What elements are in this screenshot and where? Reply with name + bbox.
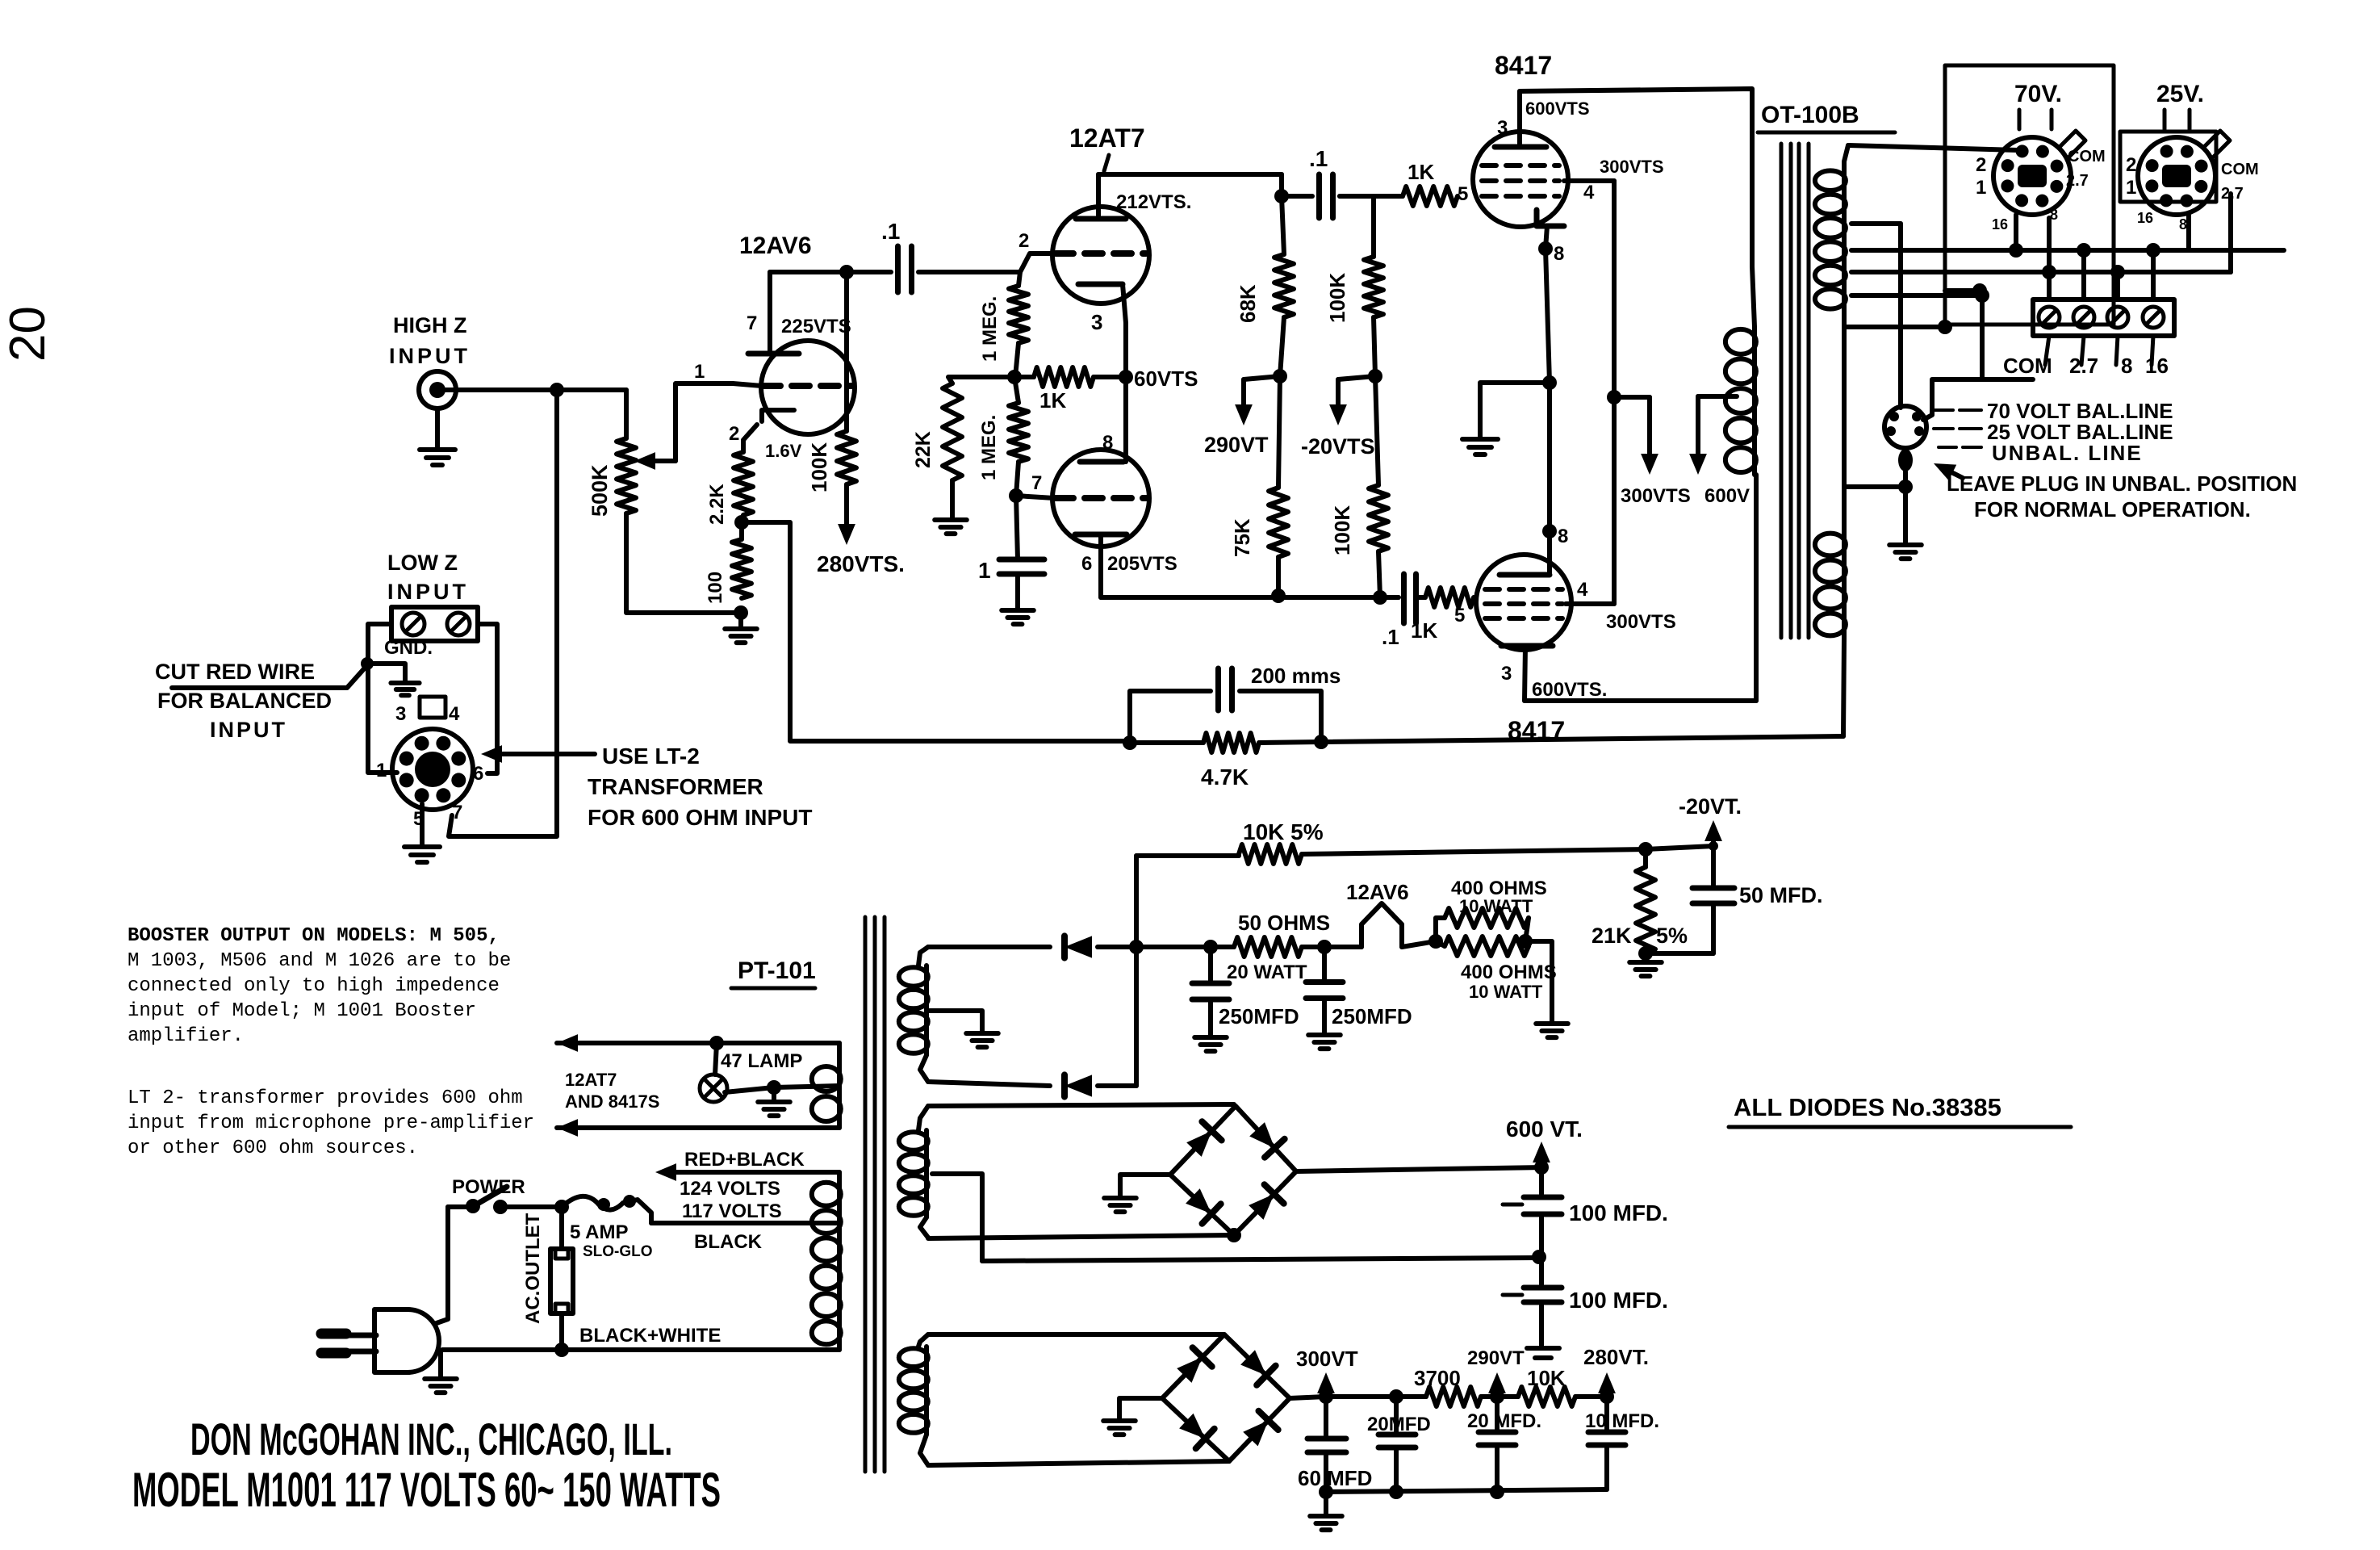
node cathode bus junction xyxy=(1542,375,1557,390)
svg-text:8: 8 xyxy=(2121,354,2132,378)
wire bridge1 output xyxy=(1296,1167,1541,1171)
wire 12AT7B plate lead xyxy=(1098,534,1103,597)
svg-text:2: 2 xyxy=(1976,154,1986,176)
node 400 ohm right xyxy=(1518,934,1533,949)
svg-text:8: 8 xyxy=(1554,243,1564,265)
svg-text:10 MFD.: 10 MFD. xyxy=(1585,1410,1659,1432)
wire filter bottom bus xyxy=(1326,1489,1607,1492)
leader unbal xyxy=(1939,446,1956,449)
svg-text:USE LT-2: USE LT-2 xyxy=(602,744,700,769)
svg-text:COM: COM xyxy=(2003,354,2052,378)
12AT7A grid dashes pin 2 xyxy=(1056,250,1146,257)
terminal strip leads xyxy=(2045,336,2049,365)
8417A screen pin 4 xyxy=(1564,178,1614,183)
capacitor .1 coupling (12AV6 to 12AT7) xyxy=(895,246,901,292)
PT HV winding 600V xyxy=(918,1106,928,1130)
svg-text:3: 3 xyxy=(1091,310,1102,334)
svg-text:1: 1 xyxy=(2126,177,2136,199)
svg-text:BLACK+WHITE: BLACK+WHITE xyxy=(579,1325,721,1347)
wire cathode bus lower xyxy=(1547,383,1552,531)
arrow 300VTS supply xyxy=(1614,395,1650,400)
ground lamp tap xyxy=(772,1087,776,1102)
wire plate line to cap xyxy=(1278,595,1380,600)
svg-text:117 VOLTS: 117 VOLTS xyxy=(682,1200,782,1222)
svg-text:4: 4 xyxy=(1583,182,1595,203)
svg-text:1: 1 xyxy=(694,361,705,383)
svg-text:input from microphone pre-ampl: input from microphone pre-amplifier xyxy=(128,1112,534,1134)
12AT7A cathode pin 3 xyxy=(1078,282,1123,287)
8417B cathode pin 8 xyxy=(1500,572,1550,578)
svg-text:1 MEG.: 1 MEG. xyxy=(978,415,1000,480)
wire bias top xyxy=(928,945,1050,949)
svg-text:600 VT.: 600 VT. xyxy=(1506,1116,1583,1142)
svg-text:290VT: 290VT xyxy=(1204,433,1269,457)
svg-text:2: 2 xyxy=(1019,230,1029,252)
node lamp tap xyxy=(767,1080,781,1095)
arrow to plug pin xyxy=(1940,467,1963,478)
svg-text:.1: .1 xyxy=(1382,625,1399,649)
node fuse left xyxy=(554,1200,569,1214)
arrow 290VT xyxy=(1244,376,1280,379)
HV winding tap xyxy=(932,1174,982,1261)
wire box 25V socket xyxy=(2120,132,2216,202)
svg-text:1: 1 xyxy=(376,760,387,781)
resistor 1K lower 8417 grid xyxy=(1417,595,1425,600)
socket LT-2 transformer (8-pin) xyxy=(392,729,473,810)
resistor 100K grid upper 8417 xyxy=(1371,196,1376,257)
rectifier bridge 2 xyxy=(1162,1334,1290,1461)
resistor 1K cathode coupling xyxy=(1034,367,1094,387)
terminal strip TS1 xyxy=(2033,300,2174,336)
wire junction after coupling cap xyxy=(1279,174,1284,196)
wire to coupling cap xyxy=(847,270,891,274)
node bridge1 bottom xyxy=(1227,1228,1241,1242)
svg-text:8: 8 xyxy=(2179,216,2187,232)
OT secondary lower coil xyxy=(1842,531,1847,638)
arrow 600 VT. xyxy=(1539,1158,1544,1167)
svg-text:16: 16 xyxy=(1992,216,2008,232)
svg-text:22K: 22K xyxy=(912,431,935,468)
svg-text:UNBAL. LINE: UNBAL. LINE xyxy=(1992,441,2143,465)
wire OT secondary top xyxy=(1848,145,2018,150)
wire pot bottom xyxy=(626,513,739,613)
svg-text:100: 100 xyxy=(705,572,726,604)
node A junction high-Z xyxy=(550,383,564,397)
capacitor 50 MFD xyxy=(1711,846,1716,888)
OT primary coil xyxy=(1752,266,1755,327)
svg-text:75K: 75K xyxy=(1230,518,1254,557)
svg-text:1 MEG.: 1 MEG. xyxy=(979,296,1001,362)
socket 25V key tag xyxy=(2204,131,2230,157)
svg-text:60 MFD: 60 MFD xyxy=(1298,1466,1372,1490)
svg-text:300VT: 300VT xyxy=(1296,1347,1358,1371)
svg-text:AC.OUTLET: AC.OUTLET xyxy=(522,1213,544,1324)
wire 12AV6 plate bus xyxy=(770,270,847,274)
wire to ground xyxy=(1480,383,1550,439)
svg-text:300VTS: 300VTS xyxy=(1621,485,1691,507)
capacitor 200 mms xyxy=(1130,691,1211,743)
svg-text:20MFD: 20MFD xyxy=(1367,1414,1431,1435)
svg-text:290VT: 290VT xyxy=(1467,1347,1525,1369)
svg-text:5 AMP: 5 AMP xyxy=(570,1221,628,1243)
wire OT secondary bottom xyxy=(1844,325,1945,329)
12AT7B cathode pin 8 xyxy=(1080,459,1123,465)
ground bridge1 xyxy=(1104,1196,1136,1200)
PT LV winding 300V xyxy=(918,1334,928,1347)
svg-text:100K: 100K xyxy=(807,442,831,492)
OT secondary upper coil xyxy=(1844,145,1848,169)
arrow 280VTS supply xyxy=(844,484,849,529)
svg-text:-20VTS: -20VTS xyxy=(1301,434,1375,459)
heater 12AV6 symbol xyxy=(1324,945,1361,949)
node lamp top xyxy=(709,1036,724,1050)
svg-text:600VTS: 600VTS xyxy=(1525,98,1590,119)
node 1MEG junction xyxy=(1007,370,1022,384)
svg-text:300VTS: 300VTS xyxy=(1600,157,1664,177)
wire plug bottom bus BLACK+WHITE xyxy=(442,1347,839,1352)
svg-text:400 OHMS: 400 OHMS xyxy=(1461,961,1557,983)
8417A plate bar pin 3 xyxy=(1495,145,1546,150)
arrow heater feed top xyxy=(557,1041,650,1045)
wire block left to socket pin1 xyxy=(368,624,397,773)
svg-text:PT-101: PT-101 xyxy=(738,957,816,984)
node plug ground junction xyxy=(1898,480,1913,494)
svg-text:3700: 3700 xyxy=(1414,1366,1461,1390)
node GND junction xyxy=(361,657,374,670)
svg-text:FOR NORMAL OPERATION.: FOR NORMAL OPERATION. xyxy=(1974,497,2251,522)
svg-text:280VT.: 280VT. xyxy=(1583,1345,1649,1369)
tap wire long 2 xyxy=(1851,270,2231,274)
wire bridge2 to ground xyxy=(1119,1398,1162,1419)
svg-text:47 LAMP: 47 LAMP xyxy=(721,1050,802,1072)
wire 300V rail xyxy=(1326,1394,1396,1399)
svg-text:4: 4 xyxy=(449,703,460,725)
svg-text:or other 600 ohm sources.: or other 600 ohm sources. xyxy=(128,1137,418,1159)
svg-text:12AV6: 12AV6 xyxy=(739,232,812,259)
12AV6 plate lead pin 7 xyxy=(768,272,772,354)
node 600VT xyxy=(1534,1160,1549,1175)
svg-text:2: 2 xyxy=(729,423,739,445)
cap lower end marker xyxy=(1527,1346,1559,1351)
wire lamp bottom to tap xyxy=(725,1087,774,1092)
svg-text:8: 8 xyxy=(1558,526,1568,547)
wire OT secondary chain down xyxy=(1842,327,1847,531)
wire LV bottom to bridge2 xyxy=(928,1461,1229,1465)
8417B screen pin 4 xyxy=(1566,601,1614,606)
diode D2 xyxy=(1065,1075,1092,1096)
svg-text:LOW Z: LOW Z xyxy=(387,551,458,575)
capacitor 20MFD first xyxy=(1394,1397,1399,1435)
PT lamp winding xyxy=(837,1064,842,1124)
wire bridge1 to ground xyxy=(1120,1175,1170,1198)
ground under high-Z jack xyxy=(435,408,440,450)
svg-text:1.6V: 1.6V xyxy=(765,441,802,461)
arrow -20VT. xyxy=(1711,836,1716,846)
arrow 280VT. xyxy=(1604,1389,1609,1397)
12AV6 grid dashes pin 1 xyxy=(763,383,852,389)
svg-text:1K: 1K xyxy=(1411,618,1437,643)
socket 70V line xyxy=(1993,137,2071,215)
svg-text:25V.: 25V. xyxy=(2156,81,2204,107)
leader 70 volt xyxy=(1934,408,1953,412)
resistor 50 OHMS xyxy=(1234,937,1302,957)
ground 8417 cathodes xyxy=(1462,437,1498,442)
ground at GND terminal xyxy=(391,681,419,685)
resistor 1 MEG lower xyxy=(1009,403,1028,462)
capacitor .1 lower coupling xyxy=(1401,574,1407,623)
svg-text:5: 5 xyxy=(1454,605,1465,626)
wire junction to 500K pot top xyxy=(557,387,626,392)
capacitor 250MFD second xyxy=(1322,947,1327,982)
wire LV top to bridge2 xyxy=(928,1332,1224,1337)
socket 25V line xyxy=(2138,137,2215,215)
8417B plate lead xyxy=(1525,646,1525,701)
svg-text:100 MFD.: 100 MFD. xyxy=(1569,1288,1668,1313)
arrow 300VT xyxy=(1324,1389,1328,1397)
svg-text:100K: 100K xyxy=(1325,273,1349,323)
resistor 4.7K feedback xyxy=(1130,740,1203,745)
svg-text:OT-100B: OT-100B xyxy=(1761,102,1859,128)
terminal block low-Z input xyxy=(391,607,478,641)
node feedback left xyxy=(1123,735,1137,750)
svg-text:300VTS: 300VTS xyxy=(1606,611,1676,633)
12AT7A plate lead xyxy=(1096,174,1101,219)
wire lamp winding bottom xyxy=(650,1125,839,1130)
tube V4 8417 lower xyxy=(1476,555,1571,650)
wire socket drops xyxy=(2014,215,2018,250)
svg-text:100K: 100K xyxy=(1330,505,1354,555)
svg-text:50 OHMS: 50 OHMS xyxy=(1238,911,1330,935)
ground under LT-2 socket xyxy=(404,844,440,849)
svg-text:TRANSFORMER: TRANSFORMER xyxy=(588,774,763,799)
resistor 100 xyxy=(732,539,751,598)
svg-text:M 1003, M506 and M 1026 are to: M 1003, M506 and M 1026 are to be xyxy=(128,950,511,972)
node below 100 xyxy=(734,605,748,620)
capacitor 100 MFD lower xyxy=(1539,1257,1544,1288)
node 400 ohm left xyxy=(1428,934,1443,949)
PT primary coil xyxy=(837,1180,842,1347)
svg-text:1: 1 xyxy=(1976,177,1986,199)
svg-text:.1: .1 xyxy=(881,219,900,244)
wire wiper to 12AV6 grid xyxy=(676,383,733,461)
svg-text:FOR BALANCED: FOR BALANCED xyxy=(157,689,332,713)
node -20 junction xyxy=(1638,842,1653,857)
wire pin5 to ground xyxy=(420,804,425,847)
wire to -20VT corner xyxy=(1646,846,1713,849)
resistor 100K plate load xyxy=(844,272,849,431)
bias winding center tap xyxy=(926,1011,982,1032)
svg-text:3: 3 xyxy=(1501,663,1512,685)
ground 400 ohm xyxy=(1536,1021,1568,1026)
svg-text:6: 6 xyxy=(1081,553,1092,575)
svg-text:LEAVE PLUG IN UNBAL. POSITION: LEAVE PLUG IN UNBAL. POSITION xyxy=(1947,471,2297,496)
node cathode junction xyxy=(734,515,749,530)
connector output plug xyxy=(1884,406,1926,448)
diode D1 xyxy=(1065,936,1092,957)
wire 400 ohm to ground xyxy=(1525,941,1552,1024)
svg-text:INPUT: INPUT xyxy=(389,344,471,368)
svg-text:7: 7 xyxy=(1031,472,1042,494)
svg-text:input of Model; M 1001 Booster: input of Model; M 1001 Booster xyxy=(128,1000,476,1022)
wire GND junction to ground xyxy=(367,664,405,682)
arrow 290VT ps xyxy=(1495,1389,1500,1397)
svg-text:3: 3 xyxy=(395,703,406,725)
svg-text:8: 8 xyxy=(1102,432,1113,454)
capacitor 20 MFD second xyxy=(1495,1397,1500,1432)
plug line from tap xyxy=(1898,224,1903,408)
wire feedback bus xyxy=(1321,736,1843,742)
svg-text:20: 20 xyxy=(0,306,56,362)
node 280VT xyxy=(1600,1389,1614,1404)
svg-text:100 MFD.: 100 MFD. xyxy=(1569,1200,1668,1225)
arrow 600V supply xyxy=(1698,394,1737,399)
node 300VT xyxy=(1319,1389,1333,1404)
12AT7B plate bar pin 6 xyxy=(1075,532,1127,538)
ground bridge2 xyxy=(1103,1418,1136,1423)
wire HV top to bridge1 xyxy=(928,1104,1234,1106)
ground under plug xyxy=(1889,542,1922,547)
8417B plate bar pin 3 xyxy=(1501,643,1553,649)
svg-text:.1: .1 xyxy=(1309,146,1328,171)
svg-text:20 WATT: 20 WATT xyxy=(1227,961,1307,983)
svg-text:8417: 8417 xyxy=(1495,51,1552,80)
tube V1 12AV6 xyxy=(761,341,855,434)
wire bridge2 output xyxy=(1290,1397,1326,1398)
svg-text:600V: 600V xyxy=(1704,485,1750,507)
svg-text:500K: 500K xyxy=(588,464,612,517)
ground bias center tap xyxy=(966,1031,998,1036)
AC outlet xyxy=(559,1207,564,1249)
svg-text:COM: COM xyxy=(2068,148,2106,165)
node 21K bottom xyxy=(1638,946,1653,961)
wire 117V tap xyxy=(651,1221,839,1225)
node 100K bottom xyxy=(1368,369,1382,383)
svg-text:HIGH Z: HIGH Z xyxy=(393,313,467,337)
svg-text:CUT RED WIRE: CUT RED WIRE xyxy=(155,660,315,684)
node 75K bottom xyxy=(1271,589,1286,603)
8417A grid rows xyxy=(1482,163,1559,168)
wire box around 70V socket xyxy=(1945,65,2114,325)
tube V2A 12AT7 upper triode xyxy=(1052,207,1149,304)
svg-text:INPUT: INPUT xyxy=(387,580,469,604)
svg-text:4.7K: 4.7K xyxy=(1201,765,1249,790)
capacitor 10 MFD xyxy=(1604,1397,1609,1432)
svg-text:5: 5 xyxy=(1458,183,1468,205)
wire HV tap bus to caps midpoint xyxy=(982,1258,1537,1261)
svg-text:amplifier.: amplifier. xyxy=(128,1025,244,1047)
node 68K bottom xyxy=(1273,369,1287,383)
svg-text:-20VT.: -20VT. xyxy=(1679,794,1742,819)
tap wire long 3 xyxy=(1851,293,1985,298)
svg-text:MODEL M1001 117 VOLTS 60~ 150: MODEL M1001 117 VOLTS 60~ 150 WATTS xyxy=(132,1463,721,1517)
resistor 3700 xyxy=(1426,1387,1481,1406)
svg-text:21K: 21K xyxy=(1592,924,1632,948)
8417A plate lead xyxy=(1517,91,1522,147)
pot wiper arrow xyxy=(644,459,676,463)
node 60VTS xyxy=(1119,370,1133,384)
svg-text:1: 1 xyxy=(978,558,991,583)
wire diode2 to rail xyxy=(1098,1083,1136,1088)
wire OT lower secondary to feedback bus xyxy=(1843,638,1844,736)
resistor 1 MEG upper xyxy=(1019,272,1020,286)
wire plug to switch xyxy=(434,1207,448,1324)
arrow USE LT-2 xyxy=(496,752,595,756)
svg-text:AND 8417S: AND 8417S xyxy=(565,1091,659,1112)
ground under 21K xyxy=(1643,953,1648,962)
svg-text:205VTS: 205VTS xyxy=(1107,553,1177,575)
PT core xyxy=(864,917,868,1472)
wire plug right to 25V tap xyxy=(1923,295,1982,420)
wire cathode bus 8417 xyxy=(1546,249,1550,383)
wire diode1 to junction xyxy=(1098,945,1136,949)
8417A cathode xyxy=(1537,210,1564,226)
svg-text:250MFD: 250MFD xyxy=(1332,1004,1412,1028)
svg-text:225VTS: 225VTS xyxy=(781,316,851,337)
svg-text:200 mms: 200 mms xyxy=(1251,664,1341,688)
wire junction to 50 ohms xyxy=(1136,945,1211,949)
ground under plug xyxy=(438,1351,443,1377)
capacitor .1 second coupling xyxy=(1282,194,1312,199)
PT bias winding xyxy=(918,947,928,966)
resistor 21K 5% xyxy=(1643,849,1648,867)
wire block right to socket pin6 xyxy=(478,624,497,773)
node plate bus junction xyxy=(839,265,854,279)
node cap midpoint xyxy=(1532,1250,1546,1264)
resistor 400 OHMS upper xyxy=(1436,918,1445,941)
svg-text:12AT7: 12AT7 xyxy=(565,1070,617,1090)
ground under cap 1 xyxy=(1002,608,1034,613)
resistor 1K upper 8417 grid xyxy=(1340,194,1374,199)
wire high-Z junction down to LT-2 pin 7 xyxy=(449,390,557,836)
svg-text:20 MFD.: 20 MFD. xyxy=(1467,1410,1541,1432)
tube V3 8417 upper xyxy=(1473,132,1568,227)
svg-text:10 WATT: 10 WATT xyxy=(1469,982,1543,1002)
potentiometer 500K xyxy=(617,438,636,513)
leader 25 volt xyxy=(1934,427,1953,430)
node feedback right xyxy=(1314,735,1328,749)
resistor 2.2K cathode xyxy=(734,452,753,515)
socket key rectangle xyxy=(420,697,445,718)
svg-text:7: 7 xyxy=(452,802,462,823)
ground 60 MFD xyxy=(1324,1492,1328,1514)
svg-text:2.7: 2.7 xyxy=(2069,354,2098,378)
12AT7B grid dashes xyxy=(1056,495,1146,501)
node pin 8 upper xyxy=(1538,241,1553,256)
12AT7A plate bar pin 1 xyxy=(1076,216,1126,222)
wire grid 7 lead xyxy=(1016,496,1054,498)
lamp 47 LAMP xyxy=(715,1043,717,1075)
node outlet bottom xyxy=(554,1343,569,1357)
svg-text:1K: 1K xyxy=(1408,160,1434,184)
svg-text:2: 2 xyxy=(2126,154,2136,176)
svg-text:DON McGOHAN INC., CHICAGO, ILL: DON McGOHAN INC., CHICAGO, ILL. xyxy=(190,1414,672,1464)
svg-text:BLACK: BLACK xyxy=(694,1231,763,1253)
resistor 10K ps xyxy=(1518,1387,1575,1406)
ground under 100 xyxy=(738,613,743,629)
resistor 400 OHMS lower xyxy=(1445,936,1529,956)
svg-text:212VTS.: 212VTS. xyxy=(1116,191,1191,213)
ground under 22K xyxy=(950,480,955,520)
wire cut-red-wire lead xyxy=(172,665,367,688)
arrow heater feed bottom xyxy=(557,1119,578,1137)
svg-text:124 VOLTS: 124 VOLTS xyxy=(680,1178,780,1200)
svg-text:16: 16 xyxy=(2137,210,2153,226)
svg-text:1K: 1K xyxy=(1039,388,1066,413)
svg-text:60VTS: 60VTS xyxy=(1134,367,1198,391)
svg-text:50 MFD.: 50 MFD. xyxy=(1739,883,1823,907)
svg-text:16: 16 xyxy=(2145,354,2169,378)
svg-text:12AT7: 12AT7 xyxy=(1069,124,1145,153)
